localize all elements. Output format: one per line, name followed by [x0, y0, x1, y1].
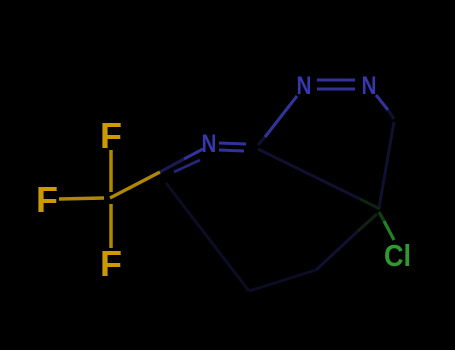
svg-text:F: F — [100, 115, 122, 156]
svg-text:F: F — [100, 243, 122, 284]
svg-text:F: F — [36, 179, 58, 220]
svg-text:Cl: Cl — [384, 238, 411, 273]
svg-text:N: N — [202, 130, 217, 158]
svg-text:N: N — [362, 72, 377, 100]
svg-text:N: N — [297, 72, 312, 100]
